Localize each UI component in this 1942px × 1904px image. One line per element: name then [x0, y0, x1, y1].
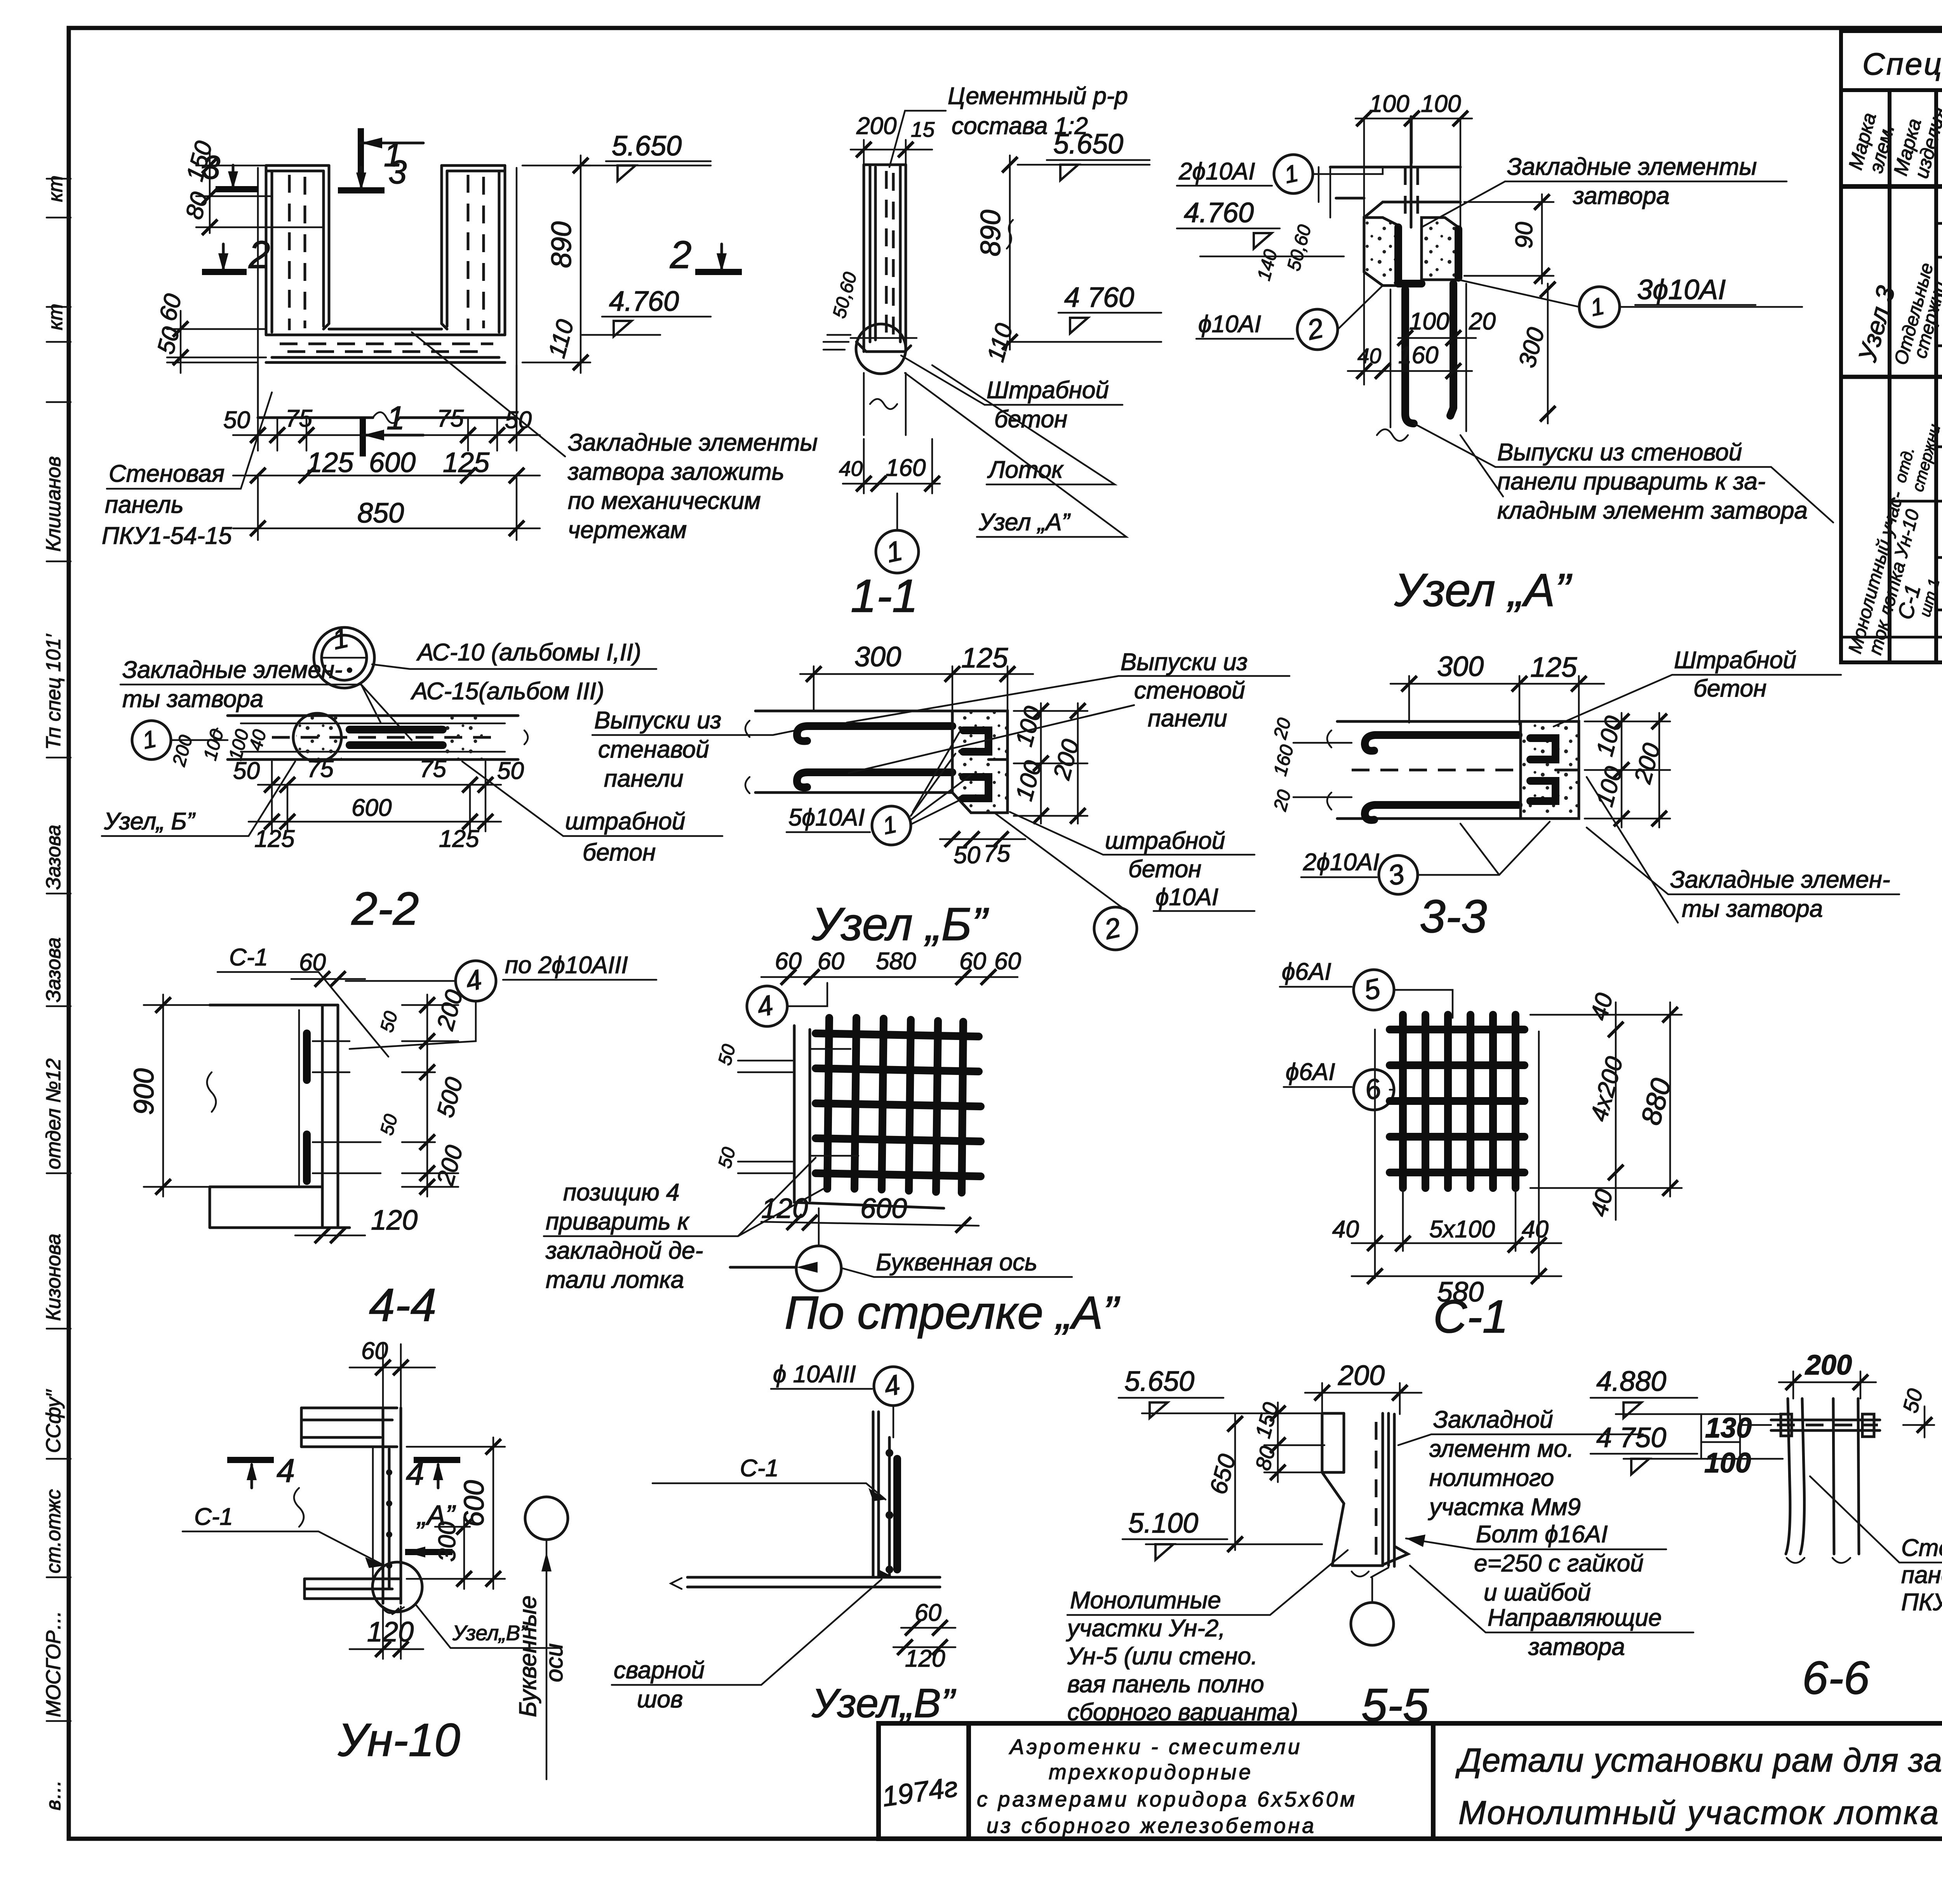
Un-10 dims 600 300 — [407, 1437, 505, 1589]
mesh C-1 grid — [1390, 1015, 1524, 1188]
svg-text:5ϕ10АI: 5ϕ10АI — [788, 804, 865, 831]
svg-text:60: 60 — [299, 949, 326, 976]
svg-text:Выпуски из стеновой: Выпуски из стеновой — [1497, 439, 1742, 466]
svg-text:Детали установки рам для затво: Детали установки рам для затворов — [1455, 1742, 1942, 1779]
axis circle (5-5) — [1351, 1578, 1394, 1645]
svg-text:Выпуски из: Выпуски из — [594, 707, 721, 734]
svg-text:60: 60 — [818, 948, 844, 975]
label закладные элементы затвора (Uzel A) — [1422, 153, 1787, 227]
title block grid — [879, 1723, 1942, 1839]
section mark 1 (bottom) — [363, 400, 423, 456]
dim 300 (Uzel A right) — [1514, 282, 1556, 423]
svg-text:штрабной: штрабной — [1105, 827, 1225, 854]
svg-text:3: 3 — [388, 154, 407, 191]
right wall of channel — [442, 165, 505, 171]
dim 40 160 (Uzel A bottom) — [1348, 237, 1472, 385]
svg-text:стенавой: стенавой — [598, 736, 709, 763]
4-4 panel body — [207, 1005, 381, 1228]
channel bottom — [329, 328, 442, 331]
svg-text:100: 100 — [1421, 91, 1461, 117]
2-2 dim 50 75 75 50 — [233, 756, 524, 793]
Uzel B dims right 100 100 200 — [1011, 703, 1088, 824]
svg-text:600: 600 — [352, 794, 392, 821]
6-6 body — [1740, 1399, 1880, 1563]
callout: double circle 1 with sheet refs — [314, 622, 656, 705]
dims 300 125 (3-3) — [1390, 651, 1604, 725]
svg-text:4 750: 4 750 — [1596, 1422, 1666, 1453]
svg-text:300: 300 — [854, 641, 901, 672]
callout ф10AIII circle 4 — [771, 1361, 913, 1437]
svg-text:в…: в… — [42, 1780, 65, 1810]
elevation 5.650 (figure) — [581, 131, 711, 181]
elevation 5.650 (5-5) — [1119, 1366, 1322, 1418]
label закладные элементы (3-3) — [1587, 777, 1899, 923]
dim 50 (6-6) — [1898, 1386, 1934, 1437]
svg-text:Аэротенки - смесители: Аэротенки - смесители — [1009, 1735, 1302, 1759]
svg-text:50: 50 — [233, 758, 260, 784]
svg-text:Закладные элементы: Закладные элементы — [568, 429, 818, 456]
letter axes circle (Un-10) — [515, 1497, 568, 1779]
svg-text:200: 200 — [856, 113, 896, 139]
label закладной элемент Мм9 (5-5) — [1398, 1406, 1643, 1521]
svg-text:3-3: 3-3 — [1420, 890, 1487, 942]
elevation 5.100 (5-5) — [1122, 1508, 1322, 1560]
svg-text:штрабной: штрабной — [565, 808, 685, 835]
svg-text:5.100: 5.100 — [1128, 1508, 1198, 1539]
svg-text:125: 125 — [443, 447, 490, 478]
callout circle 1 (2-2 left) — [132, 721, 271, 769]
svg-text:Лоток: Лоток — [987, 456, 1064, 483]
callout ф6AI circle 5 — [1280, 958, 1453, 1018]
svg-text:Стеновая: Стеновая — [1901, 1535, 1942, 1561]
embedded channel dashed — [1405, 167, 1418, 218]
left wall of channel — [266, 165, 329, 171]
svg-text:890: 890 — [546, 221, 577, 268]
spec table grid — [1841, 31, 1942, 662]
svg-text:позицию 4: позицию 4 — [563, 1179, 679, 1206]
label стеновая панель ПКУ1-54-1Г (6-6) — [1810, 1476, 1942, 1616]
thick angle of закладная — [1398, 227, 1422, 284]
svg-text:20: 20 — [1469, 308, 1496, 335]
C-1 dims bottom 40 5x100 40 580 — [1332, 1030, 1561, 1308]
callout ф10AI circle 2 (Uzel A) — [1196, 286, 1383, 350]
svg-text:кт: кт — [44, 304, 67, 330]
svg-text:Стеновая: Стеновая — [109, 460, 224, 487]
svg-text:затвора: затвора — [1573, 183, 1670, 209]
rebar hooks — [797, 726, 952, 741]
svg-text:1: 1 — [386, 400, 405, 437]
svg-text:Зазова: Зазова — [42, 825, 65, 890]
3-3 body — [1327, 721, 1579, 820]
svg-text:по 2ϕ10АIII: по 2ϕ10АIII — [505, 952, 628, 979]
Uzel V detail circle on Un-10 — [372, 1562, 559, 1648]
svg-text:кладным элемент затвора: кладным элемент затвора — [1497, 497, 1808, 524]
svg-text:Болт ϕ16АI: Болт ϕ16АI — [1476, 1521, 1608, 1548]
section mark 2 (left) — [202, 233, 270, 277]
embedded plates on panel face — [303, 1033, 311, 1181]
section mark 1 (top) — [361, 128, 423, 174]
dim 40 160 below 1-1 — [839, 439, 940, 493]
svg-text:участки Ун-2,: участки Ун-2, — [1066, 1615, 1225, 1642]
svg-text:По стрелке „А”: По стрелке „А” — [785, 1287, 1121, 1339]
svg-text:бетон: бетон — [1128, 856, 1201, 883]
Uzel V dims 60 120 — [893, 1599, 955, 1672]
svg-text:5х100: 5х100 — [1429, 1216, 1495, 1243]
mesh bars vertical — [827, 1018, 963, 1193]
dims 300 125 (Uzel B top) — [800, 641, 1033, 715]
svg-text:ПКУ1-54-15: ПКУ1-54-15 — [102, 523, 232, 549]
label C-1 (Uzel V) — [653, 1455, 886, 1501]
svg-text:кт: кт — [44, 176, 67, 202]
callout circle 1 3ф10AI — [1458, 274, 1802, 327]
weld marks — [811, 1049, 858, 1156]
svg-text:ПКУ1-54-1Г: ПКУ1-54-1Г — [1901, 1589, 1942, 1616]
dim 100 20 (Uzel A) — [1397, 308, 1496, 346]
svg-text:Узел „А”: Узел „А” — [978, 509, 1071, 536]
svg-text:100: 100 — [1409, 308, 1449, 335]
svg-text:4.760: 4.760 — [609, 286, 679, 317]
dim 200 (5-5) — [1305, 1360, 1422, 1414]
callout circle 1 below 1-1 — [876, 493, 919, 573]
dim 100 100 (top) — [1356, 91, 1472, 233]
label Shtrabnoy beton (1-1) — [901, 355, 1122, 433]
svg-text:40: 40 — [1522, 1216, 1549, 1243]
svg-text:отдел №12: отдел №12 — [42, 1058, 65, 1169]
label Uzel B callout (2-2) — [102, 761, 295, 836]
svg-text:Кизонова: Кизонова — [42, 1233, 65, 1321]
Uzel V body — [671, 1412, 940, 1589]
svg-text:трехкоридорные: трехкоридорные — [1049, 1760, 1253, 1784]
label C-1 (4-4) — [218, 944, 388, 1057]
svg-text:1-1: 1-1 — [851, 570, 918, 622]
svg-text:Клишанов: Клишанов — [42, 456, 65, 552]
svg-text:бетон: бетон — [583, 839, 656, 866]
hatch ground lines left — [823, 335, 851, 350]
wall element 1-1 — [823, 165, 917, 435]
svg-text:элемент мо.: элемент мо. — [1429, 1435, 1574, 1462]
svg-text:4: 4 — [277, 1453, 295, 1489]
dim 50 60 small (left of foot) — [829, 270, 861, 321]
elevation 5.650 (1-1) — [1018, 129, 1150, 180]
svg-text:С-1: С-1 — [740, 1455, 779, 1482]
svg-text:2: 2 — [670, 233, 692, 277]
3-3 dims right 100 100 200 — [1585, 713, 1670, 827]
svg-text:75: 75 — [285, 405, 312, 432]
5-5 dims 150 80 650 — [1205, 1400, 1324, 1552]
label выпуски из стеновой панели (Uzel B) — [847, 649, 1289, 773]
svg-text:50: 50 — [954, 842, 980, 869]
svg-text:125: 125 — [961, 643, 1008, 674]
svg-text:Узел„В”: Узел„В” — [452, 1621, 528, 1645]
svg-text:50: 50 — [223, 407, 250, 434]
Uzel B body — [745, 711, 1008, 813]
svg-text:4 760: 4 760 — [1064, 282, 1134, 313]
callout 2ф10AI circle 3 (3-3) — [1301, 822, 1550, 894]
svg-text:Выпуски из: Выпуски из — [1121, 649, 1248, 676]
svg-text:чертежам: чертежам — [568, 517, 687, 544]
dims 130 100 boxed (6-6) — [1701, 1413, 1752, 1479]
label штрабной бетон ф10AI circle 2 (Uzel B) — [994, 812, 1255, 950]
svg-text:600: 600 — [369, 447, 416, 478]
svg-text:Штрабной: Штрабной — [1674, 647, 1796, 674]
svg-text:и шайбой: и шайбой — [1484, 1579, 1591, 1606]
section mark 3 arrows at wall tops — [202, 149, 407, 191]
label закладные элементы затвора (2-2) — [120, 657, 412, 740]
svg-text:75: 75 — [419, 756, 446, 782]
svg-text:75: 75 — [307, 756, 334, 782]
C-1 dims right 40 4x200 880 — [1530, 990, 1682, 1220]
svg-text:Узел„В”: Узел„В” — [811, 1681, 956, 1726]
svg-text:Цементный р-р: Цементный р-р — [948, 83, 1128, 110]
svg-text:120: 120 — [905, 1645, 945, 1672]
elevation 4.760 (Uzel A) — [1177, 197, 1344, 283]
svg-text:125: 125 — [254, 826, 295, 852]
label позицию 4 приварить (po strelke A) — [544, 1158, 823, 1293]
svg-text:120: 120 — [371, 1205, 418, 1236]
title block: project name — [977, 1735, 1357, 1838]
4-4 dim 60 (top) — [291, 949, 365, 987]
svg-text:оси: оси — [541, 1643, 568, 1682]
elevation 4.760 (figure) — [581, 286, 711, 336]
svg-text:Закладные элемен-: Закладные элемен- — [122, 657, 343, 683]
svg-text:900: 900 — [129, 1068, 160, 1115]
svg-text:130: 130 — [1705, 1413, 1752, 1444]
4-4 dims right 50/200/500/200 — [376, 987, 468, 1197]
svg-text:60: 60 — [959, 948, 986, 975]
svg-text:АС-15(альбом III): АС-15(альбом III) — [410, 678, 604, 705]
svg-text:с размерами коридора 6х5х60м: с размерами коридора 6х5х60м — [977, 1787, 1357, 1811]
dim 200 15 (top of 1-1) — [851, 113, 935, 167]
svg-text:5.650: 5.650 — [1053, 129, 1123, 160]
svg-text:вая панель полно: вая панель полно — [1067, 1671, 1264, 1698]
svg-text:сварной: сварной — [614, 1657, 705, 1684]
po strelke A panel and mesh — [714, 1018, 981, 1208]
svg-text:50: 50 — [497, 758, 524, 784]
callout 4 по 2ф10AIII (4-4) — [346, 952, 656, 1049]
svg-text:С-1: С-1 — [194, 1503, 233, 1530]
label: wall panel PKU1-54-15 — [102, 392, 272, 549]
svg-text:АС-10 (альбомы I,II): АС-10 (альбомы I,II) — [416, 639, 641, 666]
label сварной шов — [612, 1579, 882, 1713]
label A arrow (Un-10) — [405, 1500, 456, 1557]
dim 90 (right of Uzel A) — [1464, 194, 1554, 284]
bottom dim chain 50,75 | 75,50 — [223, 365, 540, 451]
svg-text:120: 120 — [761, 1193, 808, 1224]
svg-text:100: 100 — [1369, 91, 1409, 117]
svg-text:60: 60 — [361, 1338, 388, 1364]
svg-text:участка Мм9: участка Мм9 — [1428, 1494, 1581, 1521]
spec header texts — [1845, 92, 1942, 186]
svg-text:200: 200 — [1805, 1350, 1852, 1381]
svg-text:Закладной: Закладной — [1433, 1406, 1553, 1433]
elevation 4 760 (1-1) — [982, 282, 1161, 365]
label C-1 (Un-10) — [183, 1503, 385, 1568]
svg-text:100: 100 — [1704, 1448, 1751, 1479]
svg-text:тали лотка: тали лотка — [546, 1266, 684, 1293]
svg-text:300: 300 — [434, 1522, 461, 1562]
label: embedded elements note (right of figure) — [412, 332, 818, 544]
svg-text:60: 60 — [915, 1599, 941, 1626]
svg-text:4.760: 4.760 — [1184, 197, 1254, 228]
dim 890 (right side) — [522, 155, 590, 373]
svg-text:2ϕ10АI: 2ϕ10АI — [1303, 849, 1380, 876]
title block: sheet name — [1455, 1742, 1942, 1831]
svg-text:нолитного: нолитного — [1429, 1465, 1554, 1491]
bottom shoe of wall — [856, 342, 911, 352]
label монолитные участки (5-5) — [1066, 1550, 1348, 1726]
svg-text:ты затвора: ты затвора — [122, 686, 263, 712]
break squiggle below — [864, 373, 906, 435]
svg-text:панели приварить к за-: панели приварить к за- — [1497, 468, 1766, 495]
svg-text:Монолитные: Монолитные — [1070, 1587, 1221, 1614]
concrete pocket stippled — [1364, 218, 1398, 286]
svg-text:160: 160 — [1398, 342, 1438, 369]
svg-text:2-2: 2-2 — [351, 883, 419, 935]
dim 200 (6-6) — [1779, 1350, 1876, 1399]
svg-text:125: 125 — [307, 447, 354, 478]
label штрабной бетон (3-3) — [1554, 647, 1841, 726]
svg-text:Направляющие: Направляющие — [1488, 1604, 1662, 1631]
C-1 mesh edge with studs — [388, 1449, 391, 1589]
svg-text:ст.отжс: ст.отжс — [42, 1489, 65, 1573]
svg-text:120: 120 — [367, 1617, 414, 1648]
svg-text:Тп спец 101′: Тп спец 101′ — [42, 633, 65, 750]
svg-text:С-1: С-1 — [1433, 1291, 1508, 1343]
dim 50/60 (left bottom) — [152, 291, 266, 373]
svg-text:Ун-5 (или стено.: Ун-5 (или стено. — [1067, 1643, 1258, 1670]
svg-text:ϕ6АI: ϕ6АI — [1286, 1059, 1335, 1085]
label выпуски из стенавой панели (2-2) — [592, 707, 796, 792]
svg-text:панель: панель — [1901, 1562, 1942, 1589]
svg-text:ϕ 10АIII: ϕ 10АIII — [773, 1361, 856, 1388]
svg-text:850: 850 — [357, 498, 404, 529]
svg-text:ССфу′′: ССфу′′ — [42, 1389, 65, 1453]
label cement mortar 1:2 — [889, 83, 1128, 167]
svg-text:5.650: 5.650 — [1124, 1366, 1194, 1397]
svg-text:панели: панели — [1148, 705, 1227, 732]
svg-text:затвора: затвора — [1528, 1634, 1625, 1660]
svg-text:2: 2 — [248, 233, 270, 277]
dims 60 60 580 60 60 — [761, 948, 1021, 985]
svg-text:160: 160 — [886, 455, 926, 481]
label штрабной бетон (2-2) — [462, 761, 722, 866]
spec left rotated group labels — [1845, 261, 1942, 657]
left margin rotated signatures — [42, 176, 67, 1810]
svg-text:4-4: 4-4 — [369, 1279, 436, 1331]
5-5 panel body — [1322, 1413, 1408, 1577]
svg-text:стеновой: стеновой — [1134, 677, 1245, 704]
svg-text:ϕ10АI: ϕ10АI — [1198, 311, 1261, 338]
svg-text:890: 890 — [975, 210, 1006, 256]
Uzel B dim 50 75 — [940, 831, 1025, 869]
svg-text:300: 300 — [1437, 651, 1484, 682]
label направляющие затвора (5-5) — [1410, 1566, 1693, 1660]
svg-text:Ун-10: Ун-10 — [338, 1714, 460, 1766]
label Uzel A callout — [905, 373, 1126, 537]
svg-text:600: 600 — [860, 1193, 907, 1224]
Un-10 dim 120 — [350, 1606, 423, 1659]
svg-text:75: 75 — [437, 405, 464, 432]
svg-text:40: 40 — [1332, 1216, 1359, 1243]
callout ф6AI circle 6 — [1284, 1059, 1394, 1110]
svg-text:Зазова: Зазова — [42, 937, 65, 1002]
Un-10 section marks 4 — [227, 1453, 460, 1492]
svg-text:Монолитный участок лотка Ун-10: Монолитный участок лотка Ун-10 — [1458, 1794, 1942, 1831]
svg-text:15: 15 — [911, 117, 935, 141]
svg-text:МОСГОР…: МОСГОР… — [42, 1610, 65, 1717]
dim 150 / 80 (left top) — [181, 138, 322, 235]
svg-text:600: 600 — [459, 1480, 490, 1527]
dim 850 — [233, 478, 540, 540]
callout 2ф10AI circle 1 (left) — [1177, 155, 1383, 193]
svg-text:60: 60 — [994, 948, 1021, 975]
svg-text:бетон: бетон — [1693, 675, 1766, 702]
svg-text:Штрабной: Штрабной — [987, 377, 1109, 404]
elevation 4.880 (6-6) — [1590, 1366, 1787, 1418]
detail circle at foot — [856, 324, 906, 374]
svg-text:е=250 с гайкой: е=250 с гайкой — [1474, 1550, 1644, 1577]
svg-text:40: 40 — [1357, 344, 1382, 368]
wall hatch dashes — [289, 175, 305, 330]
mesh bars horizontal — [816, 1033, 981, 1176]
4-4 dim 900 left — [129, 995, 210, 1197]
svg-text:из сборного железобетона: из сборного железобетона — [987, 1813, 1316, 1838]
svg-text:200: 200 — [1338, 1360, 1385, 1391]
svg-text:Узел „Б”: Узел „Б” — [811, 898, 989, 950]
3-3 dims left 20 160 20 rotated — [1270, 716, 1352, 814]
svg-text:по механическим: по механическим — [568, 488, 761, 514]
left margin stamp strip ticks — [47, 179, 71, 1721]
2-2 beam body — [214, 713, 528, 761]
svg-text:панель: панель — [105, 491, 184, 518]
callout 5ф10AI circle 1 (Uzel B) — [787, 732, 971, 845]
anchor bars down — [1405, 289, 1414, 423]
Un-10 dim 60 top — [350, 1338, 435, 1406]
svg-text:Буквенные: Буквенные — [515, 1596, 541, 1717]
callout 4 (po strelke A) — [747, 983, 827, 1026]
section mark 2 (right of figure) — [670, 233, 742, 277]
bolt assembly — [1771, 1420, 1880, 1430]
svg-text:Буквенная ось: Буквенная ось — [876, 1249, 1037, 1276]
svg-text:ϕ6АI: ϕ6АI — [1282, 958, 1331, 985]
svg-text:5.650: 5.650 — [612, 131, 682, 162]
svg-text:125: 125 — [439, 826, 479, 852]
svg-text:4.880: 4.880 — [1596, 1366, 1666, 1397]
label буквенная ось — [843, 1249, 1072, 1277]
svg-text:3ϕ10АI: 3ϕ10АI — [1637, 274, 1726, 305]
letter axis circle — [730, 1208, 841, 1291]
svg-text:ты затвора: ты затвора — [1682, 895, 1823, 922]
svg-text:шов: шов — [637, 1686, 683, 1713]
svg-text:Узел„ Б”: Узел„ Б” — [104, 808, 196, 835]
dim 890 (1-1) — [975, 155, 1018, 350]
svg-text:125: 125 — [1530, 652, 1577, 683]
Un-10 body — [294, 1408, 404, 1614]
2-2 dim 125 600 125 — [249, 761, 501, 852]
svg-text:Закладные элемен-: Закладные элемен- — [1670, 866, 1890, 893]
svg-text:Закладные элементы: Закладные элементы — [1507, 153, 1757, 180]
po strelke A dim 120 600 — [761, 1193, 979, 1233]
svg-text:4: 4 — [406, 1455, 424, 1492]
U-channel panel outline — [258, 165, 517, 423]
svg-text:панели: панели — [604, 765, 684, 792]
4-4 dim 120 bottom — [295, 1205, 418, 1243]
dim 125 600 125 — [233, 447, 540, 483]
label выпуски из стеновой панели приварить (Uzel A) — [1414, 423, 1833, 524]
svg-text:Спецификация арматуры на один: Спецификация арматуры на один элемент — [1862, 47, 1942, 81]
svg-text:С-1: С-1 — [229, 944, 268, 971]
elevation 4 750 (6-6) — [1590, 1422, 1783, 1474]
